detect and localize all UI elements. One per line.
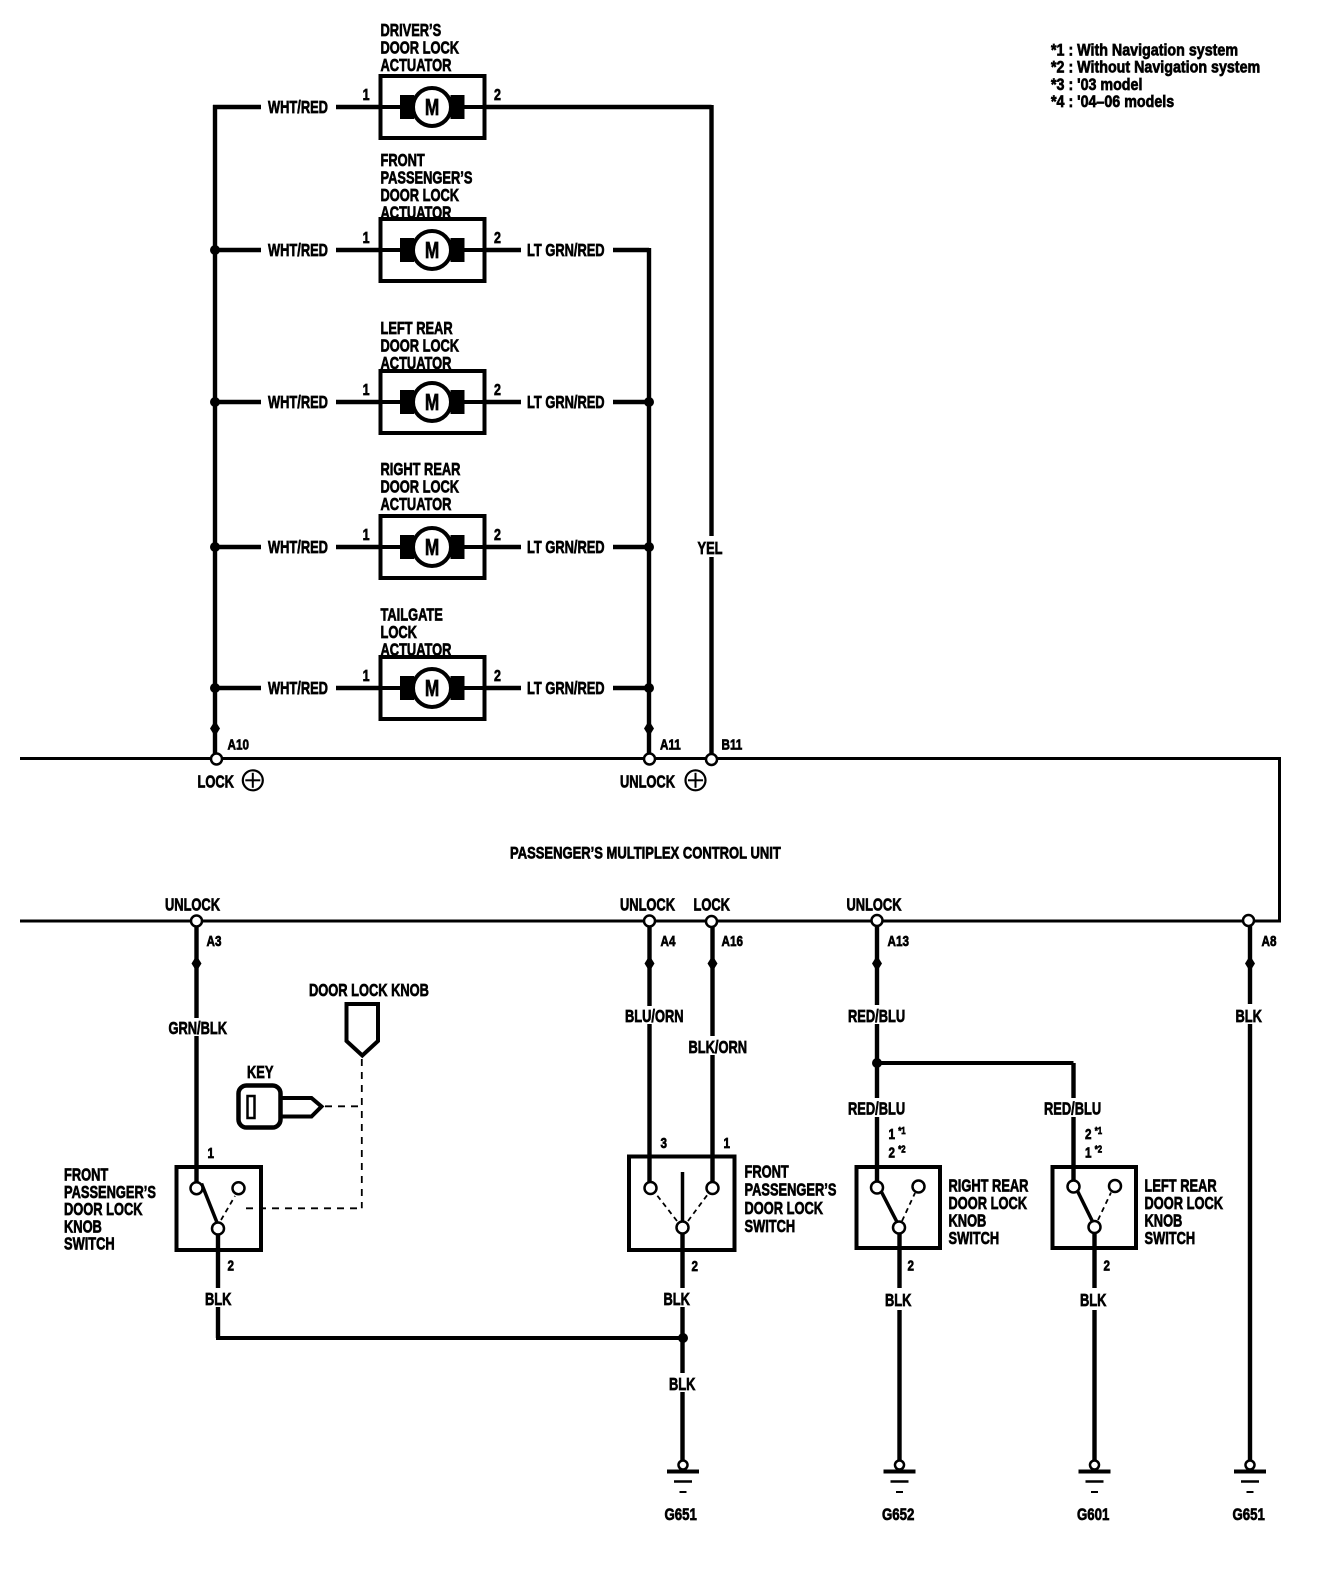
wire LT GRN/RED trunk (middle vertical bus) [647, 248, 651, 754]
label BLK (knob switch) [203, 1288, 235, 1310]
passenger's multiplex control unit box [20, 757, 1280, 923]
label RED/BLU (right rear) [844, 1098, 905, 1119]
svg-text:2: 2 [908, 1257, 915, 1274]
legend notes [1051, 41, 1260, 111]
svg-text:BLK: BLK [885, 1291, 912, 1311]
pin 1 label row 5 [363, 668, 370, 686]
svg-text:WHT/RED: WHT/RED [268, 98, 328, 118]
label passenger's multiplex control unit [510, 844, 781, 863]
arrow on A8 wire [1245, 956, 1255, 972]
actuator M5 (tailgate lock) [381, 657, 485, 719]
svg-text:LT GRN/RED: LT GRN/RED [527, 393, 605, 413]
arrow on A10 wire [210, 721, 220, 737]
wire WHT/RED row 3 (left segment) [213, 400, 381, 404]
label front passenger's door lock switch [745, 1163, 837, 1237]
ground G652 [882, 1461, 916, 1525]
wire GRN/BLK from A3 to knob switch [194, 927, 198, 1184]
junction on LT GRN/RED trunk row 5 [644, 683, 654, 693]
svg-text:1: 1 [208, 1145, 215, 1162]
svg-text:ACTUATOR: ACTUATOR [381, 56, 452, 76]
label right rear door lock actuator name [381, 460, 461, 515]
svg-text:ACTUATOR: ACTUATOR [381, 495, 452, 515]
dashed link to knob switch (horizontal) [246, 1207, 362, 1209]
wire BLK from A8 [1248, 926, 1252, 1461]
junction on LT GRN/RED trunk row 3 [644, 397, 654, 407]
wire RED/BLU branch to left rear switch [877, 1063, 1074, 1183]
wire LT GRN/RED row 3 (right segment) [485, 400, 650, 404]
junction RED/BLU branch [872, 1058, 882, 1068]
wire BLK/ORN from A16 to switch [710, 927, 714, 1183]
door lock switch contact 1 [707, 1182, 719, 1194]
svg-text:*3 : '03 model: *3 : '03 model [1051, 76, 1142, 94]
wire BLU/ORN from A4 to switch [647, 927, 651, 1184]
pin 1 label row 4 [363, 527, 370, 545]
label WHT/RED (row 5) [268, 679, 328, 699]
label tailgate lock actuator name [381, 606, 452, 661]
svg-text:A11: A11 [660, 736, 681, 753]
svg-text:WHT/RED: WHT/RED [268, 538, 328, 558]
svg-text:UNLOCK: UNLOCK [620, 773, 676, 793]
wire BLK horizontal run to ground junction [216, 1336, 683, 1340]
svg-text:RED/BLU: RED/BLU [1044, 1100, 1101, 1120]
junction BLK wires [678, 1333, 688, 1343]
svg-text:BLK: BLK [664, 1290, 691, 1310]
svg-text:SWITCH: SWITCH [1145, 1229, 1196, 1249]
svg-text:A4: A4 [661, 933, 676, 950]
label LT GRN/RED (row 3) [527, 393, 605, 413]
svg-text:A10: A10 [228, 736, 249, 753]
svg-text:DOOR LOCK KNOB: DOOR LOCK KNOB [309, 981, 429, 1001]
label LOCK with polarity symbol [198, 770, 263, 792]
label UNLOCK with polarity symbol [620, 770, 706, 792]
label WHT/RED (row 1) [268, 98, 328, 118]
svg-text:WHT/RED: WHT/RED [268, 241, 328, 261]
svg-text:G651: G651 [1233, 1506, 1266, 1525]
arrow on A11 wire [644, 721, 654, 737]
wire BLK below knob switch [216, 1235, 220, 1339]
svg-text:2: 2 [228, 1257, 235, 1274]
svg-text:WHT/RED: WHT/RED [268, 393, 328, 413]
label LT GRN/RED (row 5) [527, 679, 605, 699]
label WHT/RED (row 4) [268, 538, 328, 558]
label LT GRN/RED (row 2) [527, 241, 605, 261]
svg-text:FRONT: FRONT [745, 1163, 790, 1183]
pin 1 label row 2 [363, 230, 370, 248]
pin label 1 *1 right rear [889, 1125, 906, 1142]
terminal A11 [644, 736, 681, 764]
label left rear door lock actuator name [381, 319, 460, 374]
dashed link key to knob line [325, 1105, 362, 1107]
svg-text:YEL: YEL [698, 539, 723, 559]
svg-text:M: M [425, 96, 439, 121]
terminal A10 [211, 736, 249, 764]
door lock switch contact 2 [677, 1222, 689, 1234]
label GRN/BLK [165, 1018, 235, 1039]
svg-text:BLK: BLK [1080, 1291, 1107, 1311]
junction on LT GRN/RED trunk row 4 [644, 542, 654, 552]
left rear door lock knob switch (box) [1053, 1167, 1137, 1248]
svg-text:G601: G601 [1077, 1506, 1110, 1525]
svg-text:LT GRN/RED: LT GRN/RED [527, 241, 605, 261]
svg-text:RED/BLU: RED/BLU [848, 1100, 905, 1120]
terminal A13 [872, 915, 909, 949]
svg-text:1: 1 [363, 527, 370, 545]
actuator M2 (front passenger's door lock) [381, 219, 485, 281]
label RED/BLU (left rear) [1041, 1098, 1101, 1119]
right rear switch dashed throw [902, 1193, 915, 1221]
svg-text:BLK: BLK [1236, 1007, 1263, 1027]
svg-text:2: 2 [494, 668, 501, 686]
junction on WHT/RED trunk row 3 [210, 397, 220, 407]
pin 2 label row 2 [494, 230, 501, 248]
svg-text:G652: G652 [882, 1506, 914, 1525]
arrow on A13 wire [872, 956, 882, 972]
junction on WHT/RED trunk row 2 [210, 245, 220, 255]
wire RED/BLU from A13 [875, 926, 879, 1183]
svg-text:PASSENGER’S MULTIPLEX CONTROL: PASSENGER’S MULTIPLEX CONTROL UNIT [510, 844, 781, 863]
svg-text:GRN/BLK: GRN/BLK [169, 1019, 228, 1039]
svg-text:A3: A3 [207, 933, 222, 950]
svg-text:LT GRN/RED: LT GRN/RED [527, 538, 605, 558]
label BLK (door lock switch) [661, 1288, 693, 1310]
terminal A8 [1243, 915, 1277, 949]
wire WHT/RED row 4 (left segment) [213, 545, 381, 549]
label WHT/RED (row 3) [268, 393, 328, 413]
right rear switch contact 2 [893, 1222, 905, 1234]
svg-text:2 *1: 2 *1 [1085, 1125, 1102, 1142]
terminal A3 [191, 916, 221, 950]
arrow on A3 wire [192, 956, 202, 972]
arrow on A16 wire [708, 956, 718, 972]
actuator M1 (driver's door lock) [381, 76, 485, 138]
terminal A4 [644, 916, 676, 950]
door lock switch blade (center) [681, 1172, 685, 1222]
wire BLK below door lock switch [680, 1234, 684, 1461]
actuator M4 (right rear door lock) [381, 516, 485, 578]
wire WHT/RED row 1 (left segment) [213, 105, 381, 109]
label WHT/RED (row 2) [268, 241, 328, 261]
pin 2 label right rear [908, 1257, 915, 1274]
svg-text:*1 : With Navigation system: *1 : With Navigation system [1051, 41, 1238, 59]
svg-text:KEY: KEY [247, 1063, 274, 1083]
label KEY [247, 1063, 274, 1083]
pin label 2 *2 right rear [889, 1144, 906, 1161]
pin 2 label left rear [1104, 1257, 1111, 1274]
svg-text:1 *2: 1 *2 [1085, 1144, 1102, 1161]
pin 2 label row 4 [494, 527, 501, 545]
left rear switch contact 2 [1089, 1221, 1101, 1233]
label UNLOCK (A13) [847, 896, 903, 916]
label left rear door lock knob switch [1145, 1177, 1224, 1249]
left rear switch contact (right) [1109, 1180, 1121, 1192]
right rear switch contact (top) [871, 1182, 883, 1194]
dashed link knob to switch (vertical) [361, 1059, 363, 1208]
svg-text:2: 2 [1104, 1257, 1111, 1274]
svg-text:1: 1 [363, 668, 370, 686]
wire BLK below right rear switch [897, 1234, 901, 1461]
svg-text:M: M [425, 391, 439, 416]
wire WHT/RED row 5 (left segment) [213, 686, 381, 690]
label UNLOCK (A3) [165, 896, 221, 916]
svg-text:UNLOCK: UNLOCK [165, 896, 221, 916]
svg-text:A8: A8 [1262, 933, 1277, 950]
label LT GRN/RED (row 4) [527, 538, 605, 558]
left rear switch dashed throw [1098, 1193, 1111, 1221]
key symbol [239, 1086, 322, 1128]
knob switch blade (solid throw) [202, 1184, 218, 1223]
door lock switch contact 3 [645, 1182, 657, 1194]
svg-text:M: M [425, 239, 439, 264]
ground G651 [665, 1461, 700, 1525]
knob switch contact 1 [191, 1182, 203, 1194]
label BLK (right rear) [882, 1288, 914, 1311]
door lock knob symbol [347, 1004, 379, 1056]
svg-text:PASSENGER’S: PASSENGER’S [745, 1181, 837, 1201]
pin 1 label row 3 [363, 382, 370, 400]
svg-text:1: 1 [363, 87, 370, 105]
left rear switch blade [1078, 1191, 1093, 1222]
wire WHT/RED trunk (left vertical bus) [213, 105, 217, 754]
pin 2 label row 3 [494, 382, 501, 400]
knob switch dashed throw [221, 1196, 235, 1220]
svg-text:M: M [425, 536, 439, 561]
pin 3 label door lock switch [661, 1135, 668, 1152]
label UNLOCK (A4) [620, 896, 676, 916]
svg-text:1 *1: 1 *1 [889, 1125, 906, 1142]
svg-text:A13: A13 [888, 933, 909, 950]
svg-text:LT GRN/RED: LT GRN/RED [527, 679, 605, 699]
pin 1 label knob switch [208, 1145, 215, 1162]
svg-text:B11: B11 [722, 736, 743, 753]
label BLK (A8) [1232, 1004, 1264, 1027]
svg-text:1: 1 [363, 382, 370, 400]
label front passenger's door lock knob switch [64, 1166, 156, 1255]
label BLK/ORN [686, 1036, 747, 1058]
junction on WHT/RED trunk row 4 [210, 542, 220, 552]
svg-text:DOOR LOCK: DOOR LOCK [745, 1199, 824, 1219]
svg-text:BLU/ORN: BLU/ORN [625, 1007, 684, 1027]
front passenger's door lock switch (box) [629, 1157, 735, 1251]
pin 1 label door lock switch [724, 1135, 731, 1152]
label YEL [694, 536, 726, 559]
svg-text:UNLOCK: UNLOCK [847, 896, 903, 916]
ground G651 (right) [1233, 1461, 1267, 1525]
svg-text:SWITCH: SWITCH [64, 1235, 115, 1255]
svg-text:2: 2 [494, 230, 501, 248]
pin 1 label row 1 [363, 87, 370, 105]
svg-text:2: 2 [494, 527, 501, 545]
knob switch contact 2 [212, 1223, 224, 1235]
wire LT GRN/RED row 5 (right segment) [485, 686, 650, 690]
svg-text:UNLOCK: UNLOCK [620, 896, 676, 916]
svg-text:G651: G651 [665, 1506, 698, 1525]
junction on WHT/RED trunk row 5 [210, 683, 220, 693]
svg-text:2: 2 [494, 87, 501, 105]
pin 2 label row 5 [494, 668, 501, 686]
wire LT GRN/RED row 4 (right segment) [485, 545, 650, 549]
label front passenger's door lock actuator name [381, 151, 473, 223]
pin 2 label knob switch [228, 1257, 235, 1274]
pin 2 label row 1 [494, 87, 501, 105]
svg-text:*2 : Without Navigation system: *2 : Without Navigation system [1051, 59, 1260, 77]
right rear door lock knob switch (box) [857, 1167, 941, 1248]
right rear switch blade [882, 1192, 898, 1222]
label BLK (to G651) [666, 1373, 698, 1395]
wire YEL (right vertical bus) [709, 105, 713, 754]
pin label 1 *2 left rear [1085, 1144, 1102, 1161]
svg-text:A16: A16 [722, 933, 743, 950]
ground G601 [1077, 1461, 1111, 1525]
svg-text:BLK: BLK [669, 1375, 696, 1395]
arrow on A4 wire [645, 956, 655, 972]
label door lock knob [309, 981, 429, 1001]
svg-text:M: M [425, 677, 439, 702]
label BLU/ORN [622, 1006, 684, 1027]
pin 2 label door lock switch [692, 1258, 699, 1275]
svg-text:RED/BLU: RED/BLU [848, 1007, 905, 1027]
svg-text:2 *2: 2 *2 [889, 1144, 906, 1161]
terminal A16 [706, 916, 743, 949]
knob switch contact (lock side) [233, 1182, 245, 1194]
svg-text:BLK: BLK [205, 1290, 232, 1310]
terminal B11 [706, 736, 743, 765]
label RED/BLU (upper) [844, 1005, 905, 1027]
label LOCK (A16) [694, 896, 731, 916]
wire BLK below left rear switch [1092, 1233, 1096, 1461]
front passenger's door lock knob switch (box) [177, 1167, 262, 1250]
actuator M3 (left rear door lock) [381, 371, 485, 433]
svg-text:1: 1 [724, 1135, 731, 1152]
svg-text:SWITCH: SWITCH [745, 1217, 796, 1237]
wire LT GRN/RED row 2 (right segment) [485, 248, 650, 252]
wire WHT/RED row 2 (left segment) [213, 248, 381, 252]
left rear switch contact (top) [1068, 1181, 1080, 1193]
svg-text:2: 2 [692, 1258, 699, 1275]
door lock switch dashed throw left [656, 1194, 677, 1221]
svg-text:1: 1 [363, 230, 370, 248]
svg-text:LOCK: LOCK [198, 773, 235, 793]
svg-text:2: 2 [494, 382, 501, 400]
door lock switch dashed throw right [688, 1194, 708, 1221]
right rear switch contact (right) [913, 1181, 925, 1193]
svg-text:3: 3 [661, 1135, 668, 1152]
svg-text:BLK/ORN: BLK/ORN [689, 1038, 748, 1058]
label driver's door lock actuator name [381, 21, 460, 76]
label right rear door lock knob switch [949, 1177, 1029, 1249]
svg-text:SWITCH: SWITCH [949, 1229, 1000, 1249]
label BLK (left rear) [1077, 1288, 1109, 1311]
wire row 1 pin2 to YEL bus [485, 105, 712, 109]
svg-text:WHT/RED: WHT/RED [268, 679, 328, 699]
svg-text:LOCK: LOCK [694, 896, 731, 916]
pin label 2 *1 left rear [1085, 1125, 1102, 1142]
svg-text:*4 : '04–06 models: *4 : '04–06 models [1051, 93, 1174, 111]
